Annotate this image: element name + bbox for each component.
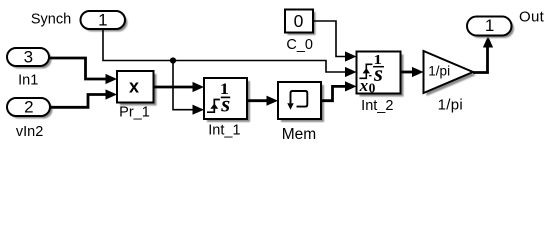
- node junction on Synch line: [170, 57, 176, 63]
- svg-text:x: x: [129, 77, 139, 97]
- svg-text:Int_2: Int_2: [361, 98, 393, 114]
- arrow into Int_1 port2: [193, 105, 205, 115]
- wire junction branch down to Int_1 port2: [173, 61, 194, 110]
- svg-text:0: 0: [369, 81, 376, 96]
- wire In1 to Pr_1 port1: [49, 58, 106, 79]
- product block Pr_1: [117, 71, 157, 106]
- wire Mem out to Int_2 port3: [321, 86, 346, 100]
- svg-text:2: 2: [24, 98, 33, 117]
- arrow into gain: [412, 67, 424, 77]
- memory block Mem: [278, 82, 324, 122]
- svg-text:Out: Out: [519, 9, 545, 26]
- wire Synch down then right to Int_2 port2: [103, 29, 346, 72]
- constant block C_0: [285, 10, 316, 36]
- wire Pr_1 out to Int_1 port1: [154, 86, 194, 89]
- gain block 1/pi triangle: [424, 51, 477, 96]
- inport Synch oval: [81, 11, 128, 32]
- arrow into Int_2 port3: [345, 81, 357, 91]
- arrow into Pr_1 port1: [106, 74, 118, 84]
- svg-text:3: 3: [24, 48, 33, 67]
- svg-text:1: 1: [98, 11, 107, 30]
- svg-text:Mem: Mem: [282, 126, 316, 143]
- svg-text:1: 1: [485, 16, 494, 35]
- wire Int_2 out to gain: [401, 71, 413, 74]
- svg-text:In1: In1: [18, 73, 38, 89]
- inport vIn2 oval: [7, 98, 53, 119]
- wire gain out up to Out: [473, 47, 488, 73]
- arrow into Int_2 port2: [345, 67, 357, 77]
- arrow into Pr_1 port2: [106, 89, 118, 99]
- svg-text:Int_1: Int_1: [208, 123, 240, 139]
- arrow into Int_2 port1: [345, 51, 357, 61]
- wire Int_1 out to Mem: [247, 99, 267, 102]
- wire C_0 right then down to Int_2 port1: [313, 21, 346, 57]
- outport Out oval: [467, 16, 514, 38]
- arrow into Int_1 port1: [193, 82, 205, 92]
- svg-text:x: x: [359, 76, 369, 95]
- svg-text:1/pi: 1/pi: [438, 97, 463, 114]
- inport In1 oval: [7, 48, 52, 69]
- svg-text:Pr_1: Pr_1: [119, 105, 150, 121]
- integrator block Int_2: [357, 52, 404, 97]
- svg-text:s: s: [220, 91, 230, 116]
- integrator block Int_1: [204, 78, 250, 122]
- arrow up into Out: [483, 36, 493, 48]
- arrow into Mem: [267, 96, 279, 106]
- svg-text:Synch: Synch: [31, 11, 71, 27]
- svg-text:vIn2: vIn2: [16, 124, 43, 140]
- svg-text:C_0: C_0: [286, 37, 313, 53]
- wire vIn2 to Pr_1 port2: [50, 95, 106, 108]
- svg-text:1/pi: 1/pi: [428, 63, 450, 78]
- svg-text:0: 0: [294, 11, 304, 31]
